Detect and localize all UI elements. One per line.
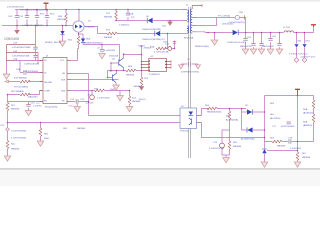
- svg-text:1.0uF/50V/0805: 1.0uF/50V/0805: [11, 131, 27, 133]
- svg-text:1uF/50V: 1uF/50V: [86, 102, 95, 104]
- svg-text:1N4007x2(1N5399): 1N4007x2(1N5399): [142, 29, 161, 31]
- svg-text:R07 SM5B06: R07 SM5B06: [11, 91, 25, 93]
- svg-text:C1B: C1B: [288, 138, 293, 140]
- svg-text:2N2222A: 2N2222A: [109, 55, 118, 58]
- svg-text:R0a(?): R0a(?): [139, 99, 146, 101]
- svg-text:0.47uF/630V/CBB2: 0.47uF/630V/CBB2: [12, 47, 31, 49]
- svg-text:0.1uF/63: 0.1uF/63: [33, 106, 42, 108]
- svg-text:SM5B06: SM5B06: [77, 128, 86, 130]
- svg-text:SM5B06: SM5B06: [104, 17, 113, 19]
- svg-text:C3F: C3F: [8, 16, 13, 18]
- svg-text:0.47uF/630V/C20: 0.47uF/630V/C20: [7, 7, 25, 9]
- svg-text:AL/SM2(DA): AL/SM2(DA): [226, 119, 238, 122]
- svg-text:SMF05/C06: SMF05/C06: [240, 46, 252, 48]
- svg-text:0.47uF/630V/CBB(3x2)(Omit): 0.47uF/630V/CBB(3x2)(Omit): [20, 8, 48, 11]
- svg-text:R0A: R0A: [303, 108, 308, 111]
- svg-text:VCC: VCC: [60, 60, 65, 62]
- svg-text:C2F: C2F: [13, 43, 18, 45]
- svg-text:SM5B06: SM5B06: [134, 86, 143, 88]
- svg-text:C2B: C2B: [13, 59, 18, 61]
- svg-text:0.1uF/5063: 0.1uF/5063: [104, 50, 116, 52]
- svg-text:AL/SM2(TDA): AL/SM2(TDA): [241, 138, 255, 141]
- svg-text:SM5B06: SM5B06: [11, 149, 20, 151]
- svg-text:L2 C5F: L2 C5F: [283, 27, 291, 29]
- svg-text:SM5B06: SM5B06: [233, 146, 242, 148]
- svg-text:(AL3R050): (AL3R050): [303, 112, 314, 115]
- svg-text:R1A: R1A: [150, 45, 155, 48]
- svg-text:ZENER_1N4746: ZENER_1N4746: [45, 42, 62, 44]
- svg-text:470PF/4KV/Y5P(1): 470PF/4KV/Y5P(1): [181, 71, 199, 73]
- svg-text:RT4 SM5B06: RT4 SM5B06: [14, 77, 28, 79]
- svg-text:C4F: C4F: [13, 51, 18, 53]
- svg-text:0.47uF/630V/CBB(R0): 0.47uF/630V/CBB(R0): [22, 25, 44, 27]
- svg-text:SM5B06(5606): SM5B06(5606): [207, 111, 222, 113]
- svg-text:R0A: R0A: [303, 121, 308, 124]
- svg-text:C5B: C5B: [239, 12, 244, 14]
- svg-text:FYL C5F/2A: FYL C5F/2A: [218, 15, 230, 18]
- svg-text:(AL25R05): (AL25R05): [270, 117, 281, 120]
- svg-text:EE1925A: EE1925A: [184, 37, 194, 40]
- svg-text:POWERGT: POWERGT: [149, 74, 161, 76]
- svg-text:5MR560: 5MR560: [57, 19, 66, 21]
- svg-text:U3: U3: [181, 106, 183, 108]
- svg-text:ZENER/1N4746(D): ZENER/1N4746(D): [84, 42, 103, 44]
- svg-text:(Freq) 66kHz: (Freq) 66kHz: [45, 107, 58, 109]
- svg-text:SM5B06: SM5B06: [11, 109, 20, 111]
- svg-text:1.04F/2x3/5063: 1.04F/2x3/5063: [24, 64, 40, 66]
- svg-text:SM5B06: SM5B06: [126, 74, 135, 76]
- svg-text:RT7 BL/N3903: RT7 BL/N3903: [14, 87, 29, 89]
- svg-text:SMF05/C08: SMF05/C08: [262, 46, 274, 48]
- svg-text:0.47uF/630V/CBB: 0.47uF/630V/CBB: [12, 56, 30, 58]
- svg-text:GND: GND: [61, 91, 66, 93]
- svg-text:SM5B06: SM5B06: [132, 101, 141, 103]
- svg-text:5606: 5606: [110, 89, 116, 91]
- svg-text:C04/D04-F-05-04(3): C04/D04-F-05-04(3): [227, 42, 247, 44]
- svg-text:0.1uF/5/5063: 0.1uF/5/5063: [97, 98, 110, 100]
- svg-text:SM5B06: SM5B06: [302, 157, 311, 159]
- svg-text:(R0): (R0): [86, 39, 90, 41]
- svg-text:2.2uF/50V/CER: 2.2uF/50V/CER: [209, 148, 224, 150]
- svg-text:KDPF10/4903: KDPF10/4903: [281, 126, 295, 128]
- svg-text:5606: 5606: [44, 138, 50, 140]
- svg-text:FS12: FS12: [69, 106, 75, 108]
- svg-text:RT5(FB1): RT5(FB1): [85, 27, 95, 29]
- svg-text:PC817(1): PC817(1): [180, 131, 189, 133]
- svg-text:4.7uF/100/C2A: 4.7uF/100/C2A: [154, 50, 169, 53]
- svg-text:C7A: C7A: [129, 13, 134, 16]
- svg-text:0.1uF/0x-C1F-5mm: 0.1uF/0x-C1F-5mm: [289, 53, 308, 55]
- svg-text:+0uF/10 P 5mm: +0uF/10 P 5mm: [300, 57, 315, 59]
- svg-text:(4B)/5063: (4B)/5063: [28, 96, 38, 98]
- svg-text:COMP: COMP: [44, 91, 51, 93]
- svg-text:DELGND: DELGND: [44, 82, 53, 84]
- svg-text:1N4007x2(1N5399)+D?: 1N4007x2(1N5399)+D?: [142, 39, 165, 41]
- svg-text:2.2uF/50V/0805: 2.2uF/50V/0805: [11, 138, 27, 140]
- svg-text:1/05/04/08: 1/05/04/08: [4, 37, 19, 41]
- svg-text:SM5B06: SM5B06: [277, 146, 286, 148]
- svg-text:GDR: GDR: [61, 80, 66, 82]
- svg-text:D1: D1: [44, 73, 46, 75]
- svg-text:U1: U1: [46, 55, 48, 57]
- svg-text:1 N4007x2: 1 N4007x2: [119, 25, 130, 27]
- svg-text:C4A: C4A: [16, 68, 21, 71]
- svg-text:0.1uF/5063: 0.1uF/5063: [290, 148, 302, 150]
- svg-text:(A86R05): (A86R05): [303, 124, 312, 127]
- svg-text:C1F: C1F: [19, 16, 24, 18]
- svg-text:D08 40U/04: D08 40U/04: [222, 23, 234, 25]
- svg-text:SM5B06: SM5B06: [104, 37, 113, 39]
- svg-text:SB560/C04(D): SB560/C04(D): [195, 46, 209, 48]
- svg-text:1.47uF/63/5063: 1.47uF/63/5063: [23, 71, 39, 73]
